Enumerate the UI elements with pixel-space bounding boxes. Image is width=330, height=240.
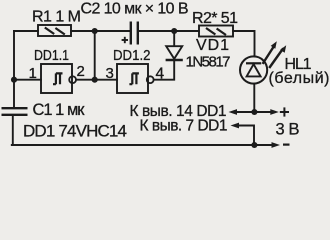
node arrow to pin 14 DD1 bbox=[229, 109, 238, 115]
diode VD1 bbox=[166, 46, 183, 60]
svg-text:R1 1 М: R1 1 М bbox=[32, 9, 81, 26]
LED HL1 bbox=[240, 56, 267, 83]
wire top left segment bbox=[14, 30, 38, 32]
resistor R2 bbox=[199, 26, 233, 37]
svg-text:VD1: VD1 bbox=[196, 37, 229, 54]
gate DD1.2 Schmitt inverter bbox=[117, 64, 154, 93]
wire R2 to LED corner bbox=[233, 31, 255, 56]
node arrow plus supply bbox=[270, 109, 279, 115]
svg-text:(белый): (белый) bbox=[269, 70, 330, 87]
capacitor C2 bbox=[131, 22, 138, 45]
svg-text:R2* 51: R2* 51 bbox=[192, 10, 238, 27]
gate DD1.1 Schmitt inverter bbox=[41, 64, 76, 93]
wire C1 bottom lead bbox=[12, 116, 14, 145]
node junction gate wire B bbox=[92, 77, 98, 83]
plus supply sign bbox=[280, 107, 289, 116]
node junction left rail A bbox=[11, 77, 17, 83]
wire left rail bbox=[13, 31, 15, 107]
wire top middle segment bbox=[71, 30, 130, 32]
svg-text:DD1.1: DD1.1 bbox=[34, 48, 69, 64]
node arrow to pin 7 DD1 bbox=[231, 123, 240, 129]
svg-text:2: 2 bbox=[77, 63, 85, 80]
node junction minus rail bbox=[251, 142, 257, 148]
wire DD1.2 output to VD1 bbox=[154, 61, 174, 80]
resistor R1 bbox=[38, 25, 71, 36]
plus mark of C2 bbox=[122, 37, 128, 43]
wire pin1 input bbox=[14, 79, 41, 81]
LED arrow 1 bbox=[262, 41, 287, 68]
minus supply sign bbox=[283, 144, 290, 146]
wire minus rail bbox=[12, 144, 273, 146]
LED arrow 2 bbox=[268, 48, 284, 69]
node junction plus rail bbox=[251, 109, 257, 115]
svg-text:1: 1 bbox=[29, 65, 37, 82]
svg-text:3: 3 bbox=[106, 65, 114, 82]
wire DD1.1 output to DD1.2 input bbox=[76, 79, 117, 81]
svg-text:DD1 74VHC14: DD1 74VHC14 bbox=[23, 122, 127, 141]
svg-text:DD1.2: DD1.2 bbox=[113, 48, 151, 64]
svg-text:C2 10 мк × 10 В: C2 10 мк × 10 В bbox=[81, 1, 189, 18]
wire VD1 anode bbox=[173, 31, 175, 46]
node junction top B bbox=[92, 28, 98, 34]
node arrow minus supply bbox=[272, 142, 281, 148]
svg-text:4: 4 bbox=[156, 66, 165, 83]
wire pin7 to minus rail bbox=[235, 126, 254, 146]
wire LED cathode lead bbox=[253, 84, 255, 112]
wire plus rail bbox=[233, 111, 272, 113]
wire vertical feedback node B bbox=[94, 31, 96, 80]
svg-text:3 В: 3 В bbox=[276, 121, 300, 139]
svg-text:1N5817: 1N5817 bbox=[186, 54, 231, 71]
svg-text:C1 1 мк: C1 1 мк bbox=[33, 101, 86, 119]
svg-text:К выв. 7 DD1: К выв. 7 DD1 bbox=[140, 118, 228, 135]
wire top segment C2 to R2 bbox=[139, 30, 199, 32]
node junction top C bbox=[171, 28, 177, 34]
capacitor C1 bbox=[2, 108, 28, 115]
